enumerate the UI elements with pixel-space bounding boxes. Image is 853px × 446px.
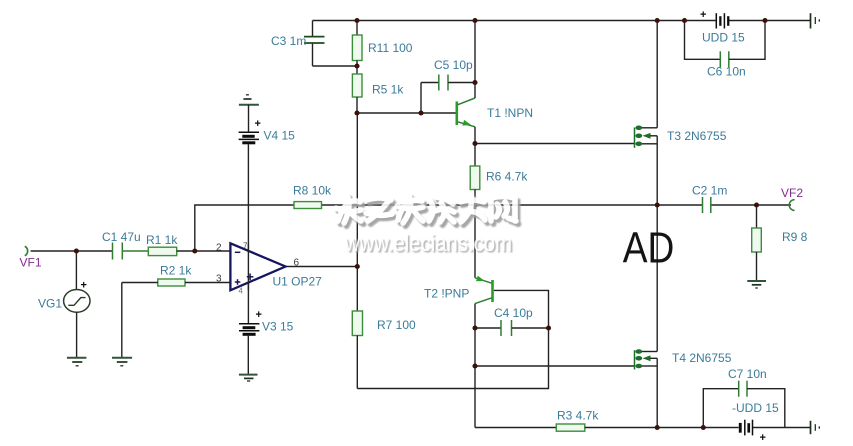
node R11 R5 C3 (354, 63, 359, 68)
node C5 right (472, 80, 477, 85)
node T1 emitter (472, 141, 477, 146)
wire supply line inside triangle redrawn (247, 244, 249, 290)
battery V3 15 (239, 309, 262, 375)
wire bottom rail left of R3 (475, 427, 556, 429)
resistor R1 (148, 247, 195, 255)
capacitor C7 (703, 381, 785, 428)
svg-text:www.elecians.com: www.elecians.com (344, 230, 512, 256)
wire inverting input pin 2 (195, 250, 231, 252)
terminal VF2 (789, 200, 794, 211)
svg-text:+: + (256, 309, 262, 321)
svg-text:T4 2N6755: T4 2N6755 (672, 351, 732, 365)
svg-text:R5 1k: R5 1k (372, 83, 404, 97)
wire vertical R5 bottom to output node (356, 113, 358, 267)
resistor R11 (352, 21, 362, 67)
wire R2 to ground (121, 283, 123, 358)
wire op-amp output (286, 266, 358, 268)
wire T1 collector to top rail (474, 21, 476, 99)
svg-text:C7 10n: C7 10n (728, 367, 767, 381)
svg-text:R7 100: R7 100 (377, 318, 416, 332)
capacitor C6 (685, 21, 766, 68)
svg-text:R8 10k: R8 10k (293, 184, 332, 198)
svg-text:-UDD 15: -UDD 15 (732, 401, 779, 415)
node T4 gate (472, 363, 477, 368)
capacitor C4 (475, 320, 549, 336)
battery V4 15 (239, 105, 261, 145)
node R6 bottom output (472, 202, 477, 207)
node output T3 T4 (655, 202, 660, 207)
node top rail battery left (682, 18, 687, 23)
svg-text:C1 47u: C1 47u (102, 230, 141, 244)
svg-text:V4 15: V4 15 (264, 129, 296, 143)
wire T3 gate net (475, 143, 635, 145)
node C4 right (546, 325, 551, 330)
capacitor C5 (421, 75, 475, 114)
resistor R7 (352, 267, 362, 389)
svg-text:R11 100: R11 100 (368, 41, 413, 55)
wire output net after C2 (711, 204, 791, 206)
svg-text:T1 !NPN: T1 !NPN (487, 106, 533, 120)
wire bottom rail right of battery (753, 427, 811, 429)
svg-text:3: 3 (216, 274, 222, 285)
svg-text:+: + (81, 280, 87, 292)
svg-text:C3 1m: C3 1m (271, 34, 306, 48)
svg-text:R9 8: R9 8 (782, 230, 808, 244)
wire T3 source down to T4 drain (656, 144, 658, 352)
svg-text:UDD 15: UDD 15 (702, 31, 745, 45)
capacitor C2 (703, 197, 711, 213)
wire feedback to R8 (195, 205, 294, 251)
node top rail R11 (354, 18, 359, 23)
node C4 left (472, 325, 477, 330)
transistor T3 2N6755 MOSFET (635, 126, 658, 148)
watermark chinese characters and url (336, 195, 519, 258)
svg-text:R2 1k: R2 1k (160, 264, 192, 278)
transistor Q T1 NPN (457, 98, 475, 127)
wire T2 collector down to bottom rail (474, 304, 476, 428)
battery UDD 15 (700, 9, 729, 29)
capacitor C1 (113, 243, 149, 260)
node C7 left (701, 425, 706, 430)
svg-text:VF1: VF1 (20, 256, 42, 270)
node VG1 top (74, 248, 79, 253)
node C5 left (418, 110, 423, 115)
svg-text:T3 2N6755: T3 2N6755 (667, 129, 727, 143)
wire output net horizontal (322, 204, 703, 206)
svg-text:T2 !PNP: T2 !PNP (424, 287, 469, 301)
source VG1 (64, 251, 90, 358)
node top rail T1 collector (472, 18, 477, 23)
node T4 source bottom (655, 425, 660, 430)
svg-text:C4 10p: C4 10p (494, 306, 533, 320)
svg-text:VF2: VF2 (781, 186, 803, 200)
transistor T2 PNP (475, 205, 493, 304)
ground under R9 (747, 281, 766, 288)
transistor T4 2N6755 MOSFET (635, 349, 658, 369)
capacitor C3 (304, 21, 357, 67)
wire T4 source to bottom rail (656, 366, 658, 428)
svg-text:+: + (255, 118, 261, 130)
ground above V4 (239, 95, 259, 105)
ground under R2 (112, 358, 132, 366)
svg-text:V3 15: V3 15 (262, 320, 294, 334)
resistor R2 (122, 279, 231, 286)
node R1 right feedback (192, 248, 197, 253)
ground bottom right (811, 421, 820, 434)
wire T2 base to right loop (357, 290, 548, 388)
resistor R8 (294, 202, 322, 209)
wire T1 emitter down (474, 127, 476, 144)
svg-text:+: + (760, 432, 766, 444)
terminal VF1 (25, 246, 28, 255)
svg-text:C2 1m: C2 1m (692, 184, 727, 198)
wire bottom rail middle (585, 427, 739, 429)
wire VF1 input net (31, 250, 113, 252)
wire T4 gate net (475, 365, 635, 367)
ground under VG1 (67, 358, 87, 366)
wire top rail left part (313, 20, 717, 22)
svg-text:R6 4.7k: R6 4.7k (486, 170, 528, 184)
svg-text:2: 2 (216, 243, 222, 254)
svg-text:C6 10n: C6 10n (707, 65, 746, 79)
wire top rail right part (729, 20, 811, 22)
svg-text:AD: AD (623, 224, 675, 273)
op-amp U1 OP27 (230, 243, 285, 290)
node top rail C6 right (762, 18, 767, 23)
node R9 top (754, 202, 759, 207)
wire supply line through op-amp (247, 144, 249, 323)
node R5 bottom (354, 110, 359, 115)
svg-text:U1 OP27: U1 OP27 (273, 275, 323, 289)
resistor R5 (352, 66, 362, 113)
resistor R3 (556, 424, 585, 431)
battery -UDD 15 (739, 420, 766, 444)
node op-amp output (355, 264, 360, 269)
svg-text:+: + (700, 9, 706, 21)
svg-text:R3 4.7k: R3 4.7k (557, 409, 599, 423)
svg-text:VG1: VG1 (38, 297, 62, 311)
node top rail T3 drain (655, 18, 660, 23)
ground top right (811, 13, 820, 28)
resistor R9 (752, 205, 762, 281)
resistor R6 (470, 144, 480, 206)
svg-text:R1 1k: R1 1k (146, 233, 178, 247)
wire base net to T1 (357, 112, 456, 114)
svg-text:4: 4 (239, 287, 244, 296)
svg-text:7: 7 (243, 242, 248, 251)
svg-text:C5 10p: C5 10p (434, 58, 473, 72)
wire T3 drain to top rail (656, 21, 658, 128)
ground under V3 (239, 375, 258, 381)
svg-text:6: 6 (294, 258, 300, 269)
